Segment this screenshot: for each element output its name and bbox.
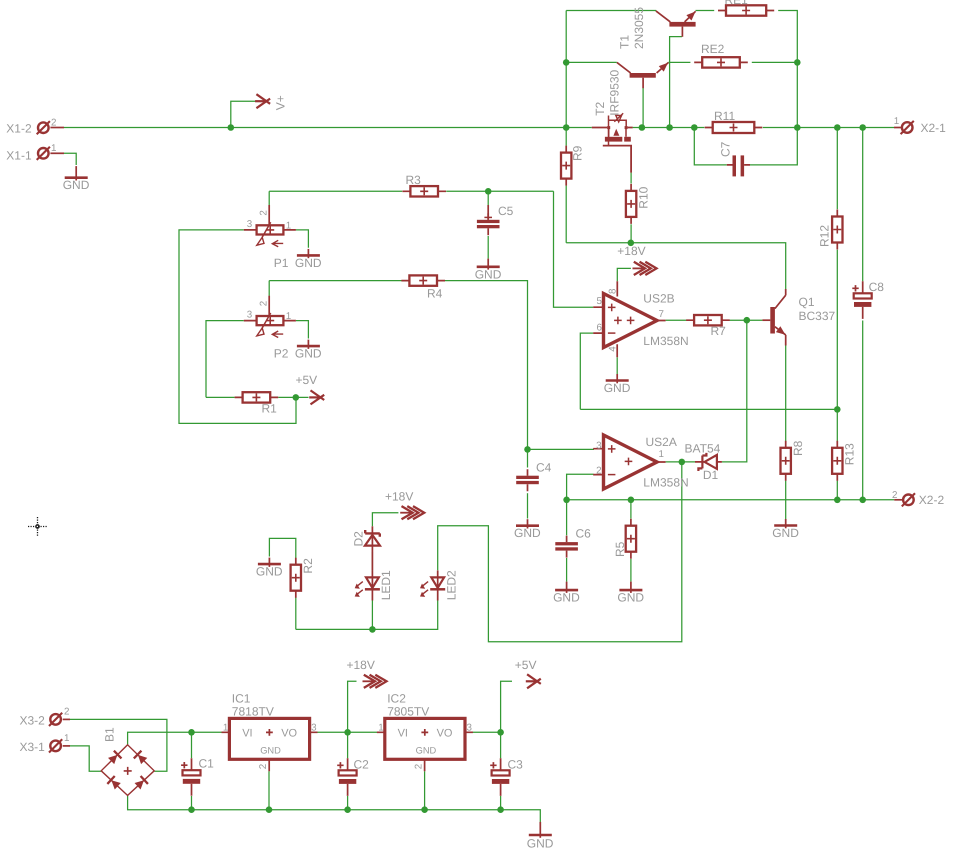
wire R8 bottom to GND [785, 481, 787, 519]
wire US2B pin4 to GND [616, 357, 618, 374]
wire net V+ riser to supply arrow [231, 101, 257, 127]
supply arrow +18V at op-amp [633, 262, 657, 275]
resistor RE2 [694, 42, 748, 67]
svg-text:R10: R10 [636, 186, 650, 208]
svg-text:5: 5 [597, 296, 603, 307]
resistor R7 [686, 315, 730, 338]
svg-text:2: 2 [258, 764, 269, 769]
svg-text:B1: B1 [103, 727, 117, 742]
wire R3 row from P1 wiper [269, 190, 402, 192]
resistor R12 [818, 210, 843, 250]
wire D2 to LED1 [371, 552, 373, 570]
junction gnd rail C2 [344, 806, 351, 813]
ground P1 [295, 249, 322, 270]
junction RE2 right [794, 59, 801, 66]
transistor T1 2N3055 [617, 60, 671, 88]
wire P1 pin3 outer loop [179, 230, 296, 424]
junction gnd rail IC2 [421, 806, 428, 813]
svg-text:R13: R13 [843, 443, 857, 465]
resistor R1 [235, 392, 279, 416]
svg-text:7818TV: 7818TV [232, 704, 274, 718]
svg-text:2: 2 [596, 466, 601, 477]
wire corner down to US2B pin5 [554, 191, 594, 307]
wire C6 bottom to GND [566, 558, 568, 582]
pad X3-2 [49, 713, 62, 726]
svg-text:4: 4 [607, 346, 618, 352]
svg-text:R3: R3 [406, 173, 422, 187]
svg-text:D1: D1 [703, 468, 719, 482]
wire US2B pin8 riser to +18V arrow [617, 268, 631, 281]
svg-text:GND: GND [553, 591, 580, 605]
wire D1 to feedback riser [722, 320, 747, 462]
pin stub X2-1 [894, 127, 902, 129]
diode LED1 [355, 570, 380, 600]
wire C7 loop [694, 128, 727, 165]
svg-text:R11: R11 [714, 109, 735, 123]
svg-text:+18V: +18V [385, 489, 413, 503]
resistor RE1 [718, 0, 774, 16]
svg-text:US2B: US2B [643, 292, 674, 306]
svg-text:RE2: RE2 [701, 42, 725, 56]
resistor R9 [561, 145, 585, 185]
pin stub X1-1 [50, 152, 64, 154]
ground supply rail [527, 822, 554, 851]
svg-text:1: 1 [64, 733, 69, 744]
wire C1 bottom [191, 796, 193, 810]
svg-text:X3-2: X3-2 [20, 714, 46, 728]
svg-text:IRF9530: IRF9530 [608, 69, 622, 115]
wire bridge plus output to IC1 [128, 732, 222, 745]
svg-text:2N3055: 2N3055 [632, 7, 646, 49]
pin stub X3-2 [63, 718, 70, 720]
junction V+ tap [228, 124, 235, 131]
transistor T2 IRF9530 [592, 113, 633, 172]
origin crosshair mark [28, 517, 47, 536]
junction +18V node [628, 240, 635, 247]
capacitor C5 [477, 204, 514, 235]
svg-text:R12: R12 [818, 225, 832, 247]
wire R2 top to GND corner [269, 538, 295, 558]
junction R1/+5V [293, 394, 300, 401]
wire P1 pin1 to GND corner [296, 230, 309, 248]
junction US2A pin3/C4 [524, 446, 531, 453]
svg-text:1: 1 [378, 722, 383, 733]
wire R13 bottom to X2-2 net [836, 481, 838, 500]
resistor R2 [291, 558, 315, 598]
wire US2B output to R7 [666, 319, 687, 321]
pin stub X3-1 [63, 745, 70, 747]
C5 stub [487, 205, 489, 220]
svg-text:VI: VI [398, 727, 408, 739]
svg-text:2: 2 [258, 301, 269, 306]
svg-text:GND: GND [260, 746, 281, 756]
junction US2A out/D1 [679, 459, 686, 466]
wire X1-1 to GND corner [64, 153, 76, 165]
wire C8 top from rail [862, 128, 864, 282]
svg-text:3: 3 [247, 310, 253, 321]
wire X3-2 to bridge right [70, 719, 167, 771]
wire net V+ rail left segment [64, 127, 592, 129]
svg-text:8: 8 [607, 288, 618, 294]
svg-text:GND: GND [63, 178, 90, 192]
svg-text:1: 1 [286, 220, 291, 231]
wire P2 pin2 riser [268, 281, 270, 296]
pad X3-1 [49, 739, 62, 752]
capacitor C6 [555, 527, 591, 558]
svg-text:C8: C8 [869, 280, 885, 294]
svg-text:BC337: BC337 [799, 309, 836, 323]
svg-text:X2-2: X2-2 [919, 493, 945, 507]
ground X1-1 [63, 166, 90, 192]
junction C2/+18V node [344, 729, 351, 736]
wire C4 branch top [527, 449, 529, 467]
svg-text:T1: T1 [618, 35, 632, 49]
ground US2B pin4 [604, 374, 631, 395]
junction X2-2/C6 [563, 497, 570, 504]
wire rail right segment R11 to X2-1 [763, 127, 894, 129]
wire C6 branch top [566, 500, 568, 536]
svg-text:3: 3 [247, 219, 253, 230]
pad X2-2 [902, 493, 915, 506]
svg-text:GND: GND [617, 591, 644, 605]
svg-text:C2: C2 [354, 757, 370, 771]
wire R4 row from P2 wiper [269, 280, 402, 282]
wire C3 bottom [500, 796, 502, 810]
junction LED row [369, 626, 376, 633]
supply arrow +18V at IC2 [363, 675, 387, 688]
wire IC1 GND pin down [268, 771, 270, 810]
svg-text:1: 1 [894, 116, 899, 127]
ground C6 [553, 582, 580, 605]
junction +5V/C3 node [497, 729, 504, 736]
svg-text:GND: GND [416, 746, 437, 756]
svg-text:LM358N: LM358N [643, 476, 688, 490]
wire bridge minus to ground rail [128, 795, 541, 822]
junction X2-2/R13 [834, 497, 841, 504]
transistor Q1 BC337 [762, 289, 835, 346]
wire T2 gate to R10 [630, 173, 632, 184]
wire R5 branch top [630, 500, 632, 519]
potentiometer P2 [244, 296, 296, 361]
wire X3-1 to bridge left [70, 746, 101, 771]
svg-text:X3-1: X3-1 [20, 740, 46, 754]
supply arrow V+ [255, 94, 270, 108]
svg-text:1: 1 [223, 722, 228, 733]
junction C1 node [188, 729, 195, 736]
junction gnd rail C3 [497, 806, 504, 813]
wire RE2 row left [566, 61, 617, 63]
wire US2A out down to LED2 loop [438, 462, 682, 642]
wire X2-2 net row [567, 499, 895, 501]
svg-text:R8: R8 [791, 440, 805, 456]
resistor R8 [781, 440, 806, 480]
supply arrow +18V at D2 [400, 506, 424, 519]
pin stub X1-2 [50, 127, 64, 129]
wire R10 bottom to +18V node [630, 224, 632, 243]
svg-text:T2: T2 [593, 101, 607, 115]
svg-text:3: 3 [311, 722, 317, 733]
ground C4 [514, 519, 541, 540]
resistor R13 [832, 441, 857, 481]
pad X1-2 [37, 121, 50, 134]
wire T3 base down to rail [670, 37, 682, 128]
pad X2-1 [901, 121, 914, 134]
wire LED2 bottom to LED row [296, 601, 438, 630]
capacitor C3 (polarized) [490, 757, 523, 796]
wire +18V riser at IC2 [348, 681, 357, 732]
capacitor C4 [516, 461, 551, 492]
svg-text:Q1: Q1 [799, 295, 815, 309]
svg-text:LM358N: LM358N [643, 334, 688, 348]
svg-text:1: 1 [51, 143, 56, 154]
ground R8 [772, 519, 799, 540]
wire IC1 VO to IC2 VI [317, 731, 377, 733]
junction C7 left [691, 124, 698, 131]
resistor R4 [401, 275, 445, 300]
junction R7/Q1 base [744, 317, 751, 324]
junction R3/C5 [485, 188, 492, 195]
svg-text:GND: GND [772, 526, 799, 540]
svg-text:2: 2 [51, 117, 56, 128]
svg-text:7805TV: 7805TV [387, 704, 429, 718]
junction X2-2/R5 [628, 497, 635, 504]
wire R9 bottom to +18V node [565, 186, 567, 243]
svg-text:+18V: +18V [347, 658, 375, 672]
wire R4 to corner down to US2A pin3 [445, 281, 528, 450]
wire rail right segment T2 drain to R11 [633, 127, 705, 129]
wire +5V riser [501, 681, 512, 732]
junction gnd rail IC1 [266, 806, 273, 813]
wire IC2 VO to +5V node [472, 731, 500, 733]
svg-text:3: 3 [596, 441, 602, 452]
wire R2 bottom drop [295, 597, 297, 629]
svg-text:VO: VO [281, 727, 297, 739]
resistor R10 [626, 184, 650, 224]
svg-text:R5: R5 [613, 541, 627, 557]
svg-text:VI: VI [242, 727, 252, 739]
supply arrow +5V at IC2 [526, 674, 541, 688]
wire T1 base down to rail [642, 88, 644, 128]
ground P2 [295, 340, 322, 361]
wire feedback row to R12/R13 node [580, 408, 837, 410]
wire T1 emitter to RE2 [668, 61, 690, 63]
ground R2 (left) [256, 558, 283, 579]
svg-text:RE1: RE1 [725, 0, 749, 7]
svg-text:C1: C1 [199, 756, 215, 770]
junction T1 base [639, 124, 646, 131]
transistor T3 (upper, with RE1) [656, 9, 698, 37]
wire C1 branch top [191, 732, 193, 758]
junction RE2 left [563, 59, 570, 66]
svg-text:R9: R9 [571, 145, 585, 161]
wire C7 right to rail [750, 128, 797, 165]
wire T3 emitter to RE1 [696, 10, 715, 12]
resistor R11 [705, 109, 763, 133]
svg-text:GND: GND [604, 381, 631, 395]
wire R12 bottom to feedback node [836, 250, 838, 410]
svg-text:3: 3 [467, 722, 473, 733]
wire RE2 right to loop [752, 61, 798, 63]
supply arrow +5V at R1 [309, 390, 324, 404]
wire US2B pin6 feedback down [580, 333, 593, 409]
svg-text:2: 2 [64, 707, 69, 718]
wire US2A output lead [666, 461, 695, 463]
svg-text:+5V: +5V [515, 658, 537, 672]
junction feedback/R12/R13 [834, 406, 841, 413]
diode LED2 [420, 570, 445, 600]
wire R12 top from rail [836, 128, 838, 210]
wire US2A pin3 lead [528, 448, 595, 450]
ground C5 [475, 259, 502, 282]
capacitor C2 (polarized) [337, 757, 369, 796]
svg-text:R4: R4 [427, 286, 443, 300]
wire C2 branch top [347, 732, 349, 758]
wire C5 bottom to GND [487, 236, 489, 259]
wire US2A pin2 riser [567, 474, 594, 500]
wire left rail vertical [565, 11, 567, 128]
svg-text:X1-1: X1-1 [6, 148, 32, 162]
svg-text:P1: P1 [274, 256, 289, 270]
svg-text:+5V: +5V [296, 373, 318, 387]
svg-text:C5: C5 [498, 204, 514, 218]
junction RE loop bottom [794, 124, 801, 131]
svg-text:C6: C6 [576, 527, 592, 541]
wire +18V node row to Q1 collector [566, 243, 786, 289]
junction R12 top [834, 124, 841, 131]
junction X2-2/C8 [859, 497, 866, 504]
svg-text:X2-1: X2-1 [921, 121, 947, 135]
svg-text:GND: GND [295, 347, 322, 361]
svg-text:2: 2 [413, 764, 424, 769]
svg-text:R7: R7 [711, 324, 727, 338]
junction T3 base [666, 124, 673, 131]
svg-text:C3: C3 [508, 757, 524, 771]
svg-text:2: 2 [258, 210, 269, 215]
op-amp US2A LM358N [593, 435, 665, 489]
wire C8 bottom to X2-2 net [862, 321, 864, 500]
junction gnd rail C1 [188, 806, 195, 813]
svg-text:VO: VO [437, 727, 453, 739]
wire R3 to US2B corner [446, 190, 553, 192]
svg-text:6: 6 [597, 322, 603, 333]
svg-text:R2: R2 [301, 558, 315, 574]
capacitor C8 (polarized) [852, 280, 884, 319]
svg-text:GND: GND [295, 256, 322, 270]
svg-text:C4: C4 [536, 461, 552, 475]
svg-text:GND: GND [514, 526, 541, 540]
svg-text:1: 1 [286, 311, 291, 322]
wire C2 bottom [347, 796, 349, 810]
junction C8 top [859, 124, 866, 131]
bridge rectifier B1 [101, 727, 154, 795]
capacitor C1 (polarized) [181, 756, 214, 795]
svg-text:LED1: LED1 [379, 570, 393, 600]
svg-text:BAT54: BAT54 [685, 441, 721, 455]
pad X1-1 [37, 147, 50, 160]
potentiometer P1 [244, 205, 296, 270]
wire R9 branch top [565, 128, 567, 146]
wire R7 to Q1 base [729, 319, 762, 321]
op-amp US2B LM358N [593, 281, 665, 357]
junction rail/left-rail/R9 [563, 124, 570, 131]
wire R5 bottom to GND [630, 559, 632, 582]
svg-text:X1-2: X1-2 [6, 122, 32, 136]
pin stub X2-2 [894, 499, 903, 501]
svg-text:V+: V+ [274, 95, 288, 110]
wire top wire to T3 collector [566, 10, 656, 12]
svg-text:US2A: US2A [646, 435, 677, 449]
svg-text:R1: R1 [262, 402, 278, 416]
resistor R5 [613, 519, 636, 559]
wire P2 pin1 to GND corner [296, 321, 309, 339]
svg-text:LED2: LED2 [445, 570, 459, 600]
wire C4 bottom to GND [527, 493, 529, 518]
voltage regulator IC1 7818TV [222, 692, 318, 772]
ground R5 [617, 582, 644, 605]
svg-text:GND: GND [527, 837, 554, 851]
wire P1 pin2 riser [268, 191, 270, 205]
svg-text:D2: D2 [352, 531, 366, 547]
voltage regulator IC2 7805TV [377, 692, 473, 772]
capacitor C7 [727, 155, 750, 176]
svg-text:7: 7 [659, 309, 664, 320]
wire +18V corner to D2 [372, 513, 398, 527]
svg-text:GND: GND [256, 565, 283, 579]
wire C3 branch top [500, 732, 502, 758]
wire C5 branch top [487, 191, 489, 205]
wire R1 right to +5V node [278, 396, 308, 398]
svg-text:+18V: +18V [617, 244, 645, 258]
svg-text:GND: GND [475, 267, 502, 281]
diode D1 BAT54 (schottky, pointing left) [695, 453, 722, 471]
svg-text:1: 1 [659, 449, 664, 460]
svg-text:2: 2 [892, 490, 897, 501]
resistor R3 [402, 173, 446, 197]
wire RE1 to right loop corner [778, 11, 797, 128]
wire LED1 bottom drop [371, 601, 373, 630]
svg-text:P2: P2 [274, 347, 289, 361]
svg-text:C7: C7 [719, 141, 733, 157]
wire R1 row left [206, 396, 235, 398]
plus mark C5 [484, 216, 492, 218]
wire R1 left riser to P2 pin3 [206, 321, 244, 398]
wire IC2 GND pin down [424, 771, 426, 810]
diode D2 zener [365, 526, 380, 570]
wire Q1 emitter to R8 [785, 346, 787, 442]
wire R13 top [836, 409, 838, 441]
